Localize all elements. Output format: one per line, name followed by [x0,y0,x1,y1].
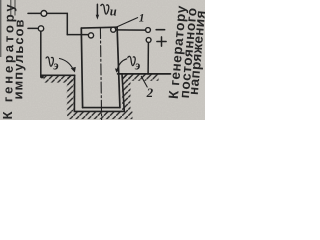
svg-text:э: э [52,58,58,72]
svg-text:1: 1 [139,12,145,24]
svg-text:2: 2 [146,85,154,100]
svg-text:импульсов: импульсов [10,18,26,99]
svg-text:и: и [110,5,117,19]
svg-text:э: э [134,59,140,73]
